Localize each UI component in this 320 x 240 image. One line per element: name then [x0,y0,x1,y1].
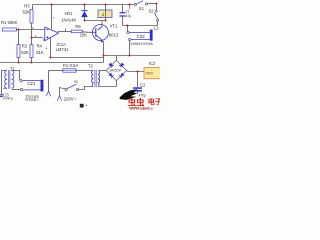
ink blob bottom middle [80,104,84,108]
capacitor C1 [120,12,126,16]
socket CZ1 [20,80,44,92]
wire bridge top lead [116,56,118,61]
wire C2 top lead [137,72,139,88]
svg-text:FU 0.5A: FU 0.5A [63,63,79,68]
wire bottom supply rail [99,86,116,88]
switch S1 [134,1,147,6]
watermark blob [119,89,138,100]
svg-text:61K: 61K [36,50,44,55]
svg-text:1N4148: 1N4148 [61,17,76,22]
stub below rail dot [129,5,131,10]
junction dots [17,3,157,73]
svg-text:R2: R2 [22,43,28,48]
svg-text:S2: S2 [149,9,155,14]
svg-text:VT1: VT1 [110,24,118,29]
svg-text:7806: 7806 [145,72,153,76]
svg-text:62K: 62K [23,9,31,14]
plug prong 2 [57,96,61,101]
wire op-amp V+ pin [51,5,53,30]
svg-text:T1: T1 [10,66,16,71]
switch S3 mains [65,84,79,91]
svg-text:R1 560K: R1 560K [1,20,18,25]
capacitor C2 [133,87,142,94]
wire fuse right to T2 [76,70,93,72]
svg-text:VD1: VD1 [64,11,73,16]
wire R3 top lead [32,5,34,10]
wire relay top lead [105,5,107,11]
wire S1 right [148,3,157,5]
wire collector [98,21,102,30]
transistor Q1 VT1 [92,25,108,43]
svg-text:220V~: 220V~ [64,97,77,102]
switch S2 [154,10,158,21]
wire R5 to base [82,31,96,34]
relay coil J [98,10,112,18]
wire VD1 bottom lead [84,17,86,21]
wire CZ2 lower branch [129,41,131,56]
svg-text:C2: C2 [140,83,146,88]
svg-text:R5: R5 [75,24,81,29]
wire plug1 riser [48,71,50,92]
transformer T2 [92,70,100,87]
wire S2 top lead [156,4,158,11]
svg-text:1A/50V: 1A/50V [109,69,122,73]
wire T1 pri bottom [3,87,7,89]
wire C1 top lead [122,5,124,13]
wire fuse left [49,70,63,72]
bridge rectifier [106,60,126,80]
wire ground rail left [0,62,104,64]
svg-text:J: J [102,12,104,17]
wire bridge bottom lead [116,80,118,86]
wire T1 sec top [12,71,20,80]
wire emitter column [103,41,105,62]
plug prong 1 [46,91,50,96]
wire top rail [33,4,135,6]
svg-text:9013: 9013 [109,32,119,37]
svg-text:47μ: 47μ [126,14,132,18]
regulator IC2 [144,68,161,79]
svg-text:62K: 62K [21,50,29,55]
wire R4 bottom lead [31,58,33,63]
svg-text:电源输出至其他电路: 电源输出至其他电路 [130,41,153,45]
wire plus input stub [43,38,45,41]
svg-text:CZ1: CZ1 [27,81,36,86]
op-amp U1 [45,27,59,41]
resistor R3 [30,10,33,24]
wire T1 pri top [2,71,7,95]
wire switch to T2 [79,87,93,90]
socket CZ2 [127,30,153,41]
svg-text:R3: R3 [24,4,30,9]
wire pin6 tick [65,29,67,32]
wire R3 bottom to node A [31,23,33,45]
svg-text:CZ2: CZ2 [137,34,146,39]
svg-text:S3: S3 [74,80,78,84]
svg-text:L1: L1 [154,26,159,31]
capacitor C3 [0,94,3,97]
wire R2 bottom lead [18,58,20,63]
svg-text:R4: R4 [37,43,43,48]
wire R2 top lead [18,30,20,45]
svg-text:WWW.bqwdz.c: WWW.bqwdz.c [129,106,153,110]
wire T2 sec top to bridge [99,70,106,72]
wire plug2 riser [60,88,65,96]
transformer T1 [5,70,14,89]
svg-text:10K: 10K [80,32,88,37]
svg-text:0.047μ: 0.047μ [3,97,13,101]
resistor R2 [17,45,20,58]
wire relay bottom lead [105,18,107,21]
svg-text:C1: C1 [126,9,130,13]
svg-text:S1: S1 [139,6,145,11]
fuse FU [63,69,76,72]
wire S2 CZ2 line [123,25,158,27]
resistor R1 [3,28,19,31]
svg-text:T2: T2 [88,63,94,68]
wire CZ2 branch [127,26,129,32]
wire VD1 top lead [84,5,86,11]
wire op-amp V- pin [50,38,52,58]
wire rail mid right [104,55,161,57]
svg-text:LM741: LM741 [56,47,69,52]
svg-text:电子: 电子 [148,97,160,106]
wire C1 bottom lead [122,17,124,26]
wire minus input [17,29,45,31]
resistor R4 [30,45,33,58]
svg-text:IC2: IC2 [149,61,156,66]
wire V- to emitter column [51,57,104,59]
wire op-amp output [58,31,72,33]
wire bridge right to IC2 [127,71,144,72]
diode VD1 [81,10,87,17]
wire plus input [32,37,44,39]
wire collector bottom rail [85,20,106,22]
resistor R5 [71,30,82,33]
wire S2 bottom lead [157,21,159,25]
svg-text:的交流输入: 的交流输入 [25,97,39,101]
wire T1 sec bottom [12,89,21,91]
